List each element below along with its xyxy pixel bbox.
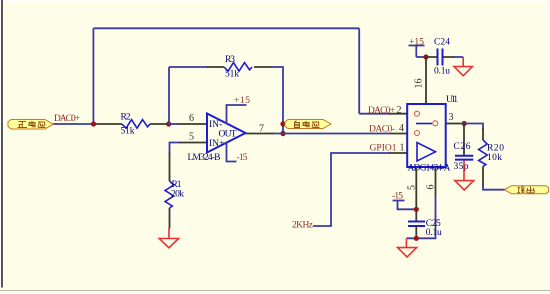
ground under R1 [159,228,178,248]
power +15 at op-amp [227,96,251,124]
wire: R3 feedback left vertical [168,67,170,124]
svg-text:-15: -15 [237,153,248,163]
svg-text:U11: U11 [446,95,458,105]
pin lead: U11 pin 3 [446,123,461,125]
pin lead: op-amp pin 6 [179,123,208,125]
svg-text:+15: +15 [234,96,250,106]
port 正电压 [8,120,53,130]
op-amp U?A LM324-B [188,114,246,164]
svg-text:6: 6 [425,185,436,190]
node: C25 / pin6 / ground junction [414,236,419,241]
svg-text:IN+: IN+ [209,139,224,149]
ground under C25 [398,238,417,257]
node: port 负电压 attach [280,121,285,126]
svg-text:R20: R20 [487,144,504,154]
wire: R3 row right segment and drop to output net [271,67,283,134]
svg-text:5: 5 [189,132,194,143]
resistor R1 20k [165,152,184,229]
capacitor C25 0.1u [408,219,442,239]
wire: U11 pin 6 down to ground row [406,195,435,238]
svg-text:4: 4 [399,123,404,134]
svg-text:3: 3 [449,112,454,123]
pin lead: U11 pin 5 bottom [415,167,417,222]
node: output junction [280,131,285,136]
node: DAC0+ junction at top-bus drop [91,121,96,126]
svg-text:DAC0+: DAC0+ [54,114,80,124]
svg-text:0.1u: 0.1u [426,228,442,238]
svg-text:7: 7 [259,124,264,135]
wire: R3 row left segment [169,66,208,68]
svg-text:2KHz: 2KHz [292,221,313,231]
wire: GPIO1 / 2KHz net [313,153,390,226]
resistor R2 51k [95,112,168,136]
resistor R3 51k [207,55,272,80]
node: pin3 / C26 / R20 junction [462,121,467,126]
wire: from port 正电压 to DAC0+ node [53,123,96,125]
svg-text:GPIO1: GPIO1 [370,144,397,154]
svg-text:ADG1434-A: ADG1434-A [408,163,451,173]
power -15 at U11 pin 5 [392,192,416,210]
ground under C24 [454,57,472,76]
svg-text:DAC0+: DAC0+ [368,106,395,116]
pin lead: U11 pin 6 bottom [435,167,437,196]
resistor R20 10k [479,128,505,186]
svg-text:6: 6 [189,113,194,124]
node: -15 / pin5 junction [414,207,419,212]
wire: +15 to C24 node [416,56,427,58]
node: junction R2/R3/op-amp pin6 [166,121,171,126]
pin lead: op-amp pin 5 [179,142,207,144]
svg-text:10k: 10k [487,153,502,163]
pin lead: U11 pin 1 [389,152,407,154]
pin lead: U11 pin 16 top [425,57,427,104]
svg-text:DAC0-: DAC0- [369,124,395,134]
svg-text:R2: R2 [121,112,131,122]
svg-text:+15: +15 [409,37,424,47]
svg-text:OUT: OUT [219,129,237,139]
ground under C26 [455,161,474,191]
svg-text:51k: 51k [121,126,135,136]
svg-text:R1: R1 [172,180,182,190]
wire: C24 to ground stem [454,56,464,58]
svg-text:IN-: IN- [209,120,222,130]
wire: stub from junction to op-amp pin 6 lead [169,123,179,125]
capacitor C24 0.1u [426,37,455,76]
capacitor C26 35p [454,124,474,173]
node: +15 / pin16 / C24 junction [423,54,428,59]
svg-text:51k: 51k [225,69,239,79]
wire: left vertical from top bus down to DAC0+ node [92,28,94,124]
port 输出 [505,186,549,194]
wire: top feedback bus [93,27,359,29]
wire: op-amp pin 5 branch [170,143,181,154]
svg-text:LM324-B: LM324-B [188,153,221,163]
svg-text:16: 16 [414,79,425,89]
wire: output net to U11 pin 4 [273,133,389,135]
svg-text:1: 1 [400,142,405,153]
svg-text:2: 2 [397,105,402,116]
pin lead: U11 pin 4 [389,133,407,135]
svg-text:C24: C24 [434,37,450,47]
svg-text:-15: -15 [392,192,403,202]
pin lead: U11 pin 2 [389,113,408,115]
wire: right vertical from top bus down to U11 pin 2 [358,28,360,113]
pin lead: op-amp pin 7 output [246,133,275,135]
svg-text:5: 5 [406,185,417,190]
wire: U11 pin 2 stub [359,113,390,115]
svg-text:C26: C26 [454,142,471,152]
wire: R20 to port 输出 [483,185,506,190]
svg-text:R3: R3 [225,55,235,65]
svg-text:0.1u: 0.1u [434,66,450,76]
svg-text:35p: 35p [454,162,469,172]
power +15 top right [409,37,425,57]
wire: pin3 node to R20 [461,124,483,130]
port 负电压 [285,120,331,129]
power -15 at op-amp [227,143,248,163]
IC U11 ADG1434-A body [407,95,458,174]
svg-text:20k: 20k [171,190,184,200]
